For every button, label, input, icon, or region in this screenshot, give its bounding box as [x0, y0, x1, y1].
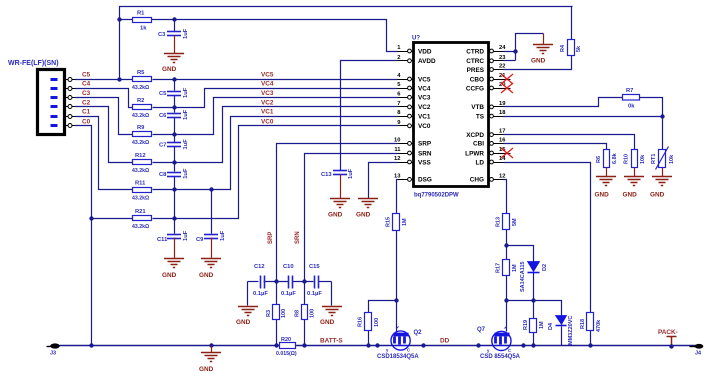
wire pin16 to R6 — [504, 144, 607, 150]
svg-text:C4: C4 — [82, 81, 91, 88]
svg-text:VDD: VDD — [418, 48, 432, 55]
wire VSS to ground — [369, 163, 398, 199]
wire right filter cap to ground — [331, 282, 333, 306]
SECTION: top rails — [120, 7, 573, 80]
wire pin5 jog to R11 — [76, 117, 134, 190]
svg-text:C9: C9 — [196, 237, 204, 243]
IC left pin stubs — [398, 49, 414, 181]
svg-text:AVDD: AVDD — [418, 58, 436, 65]
junction R1 row left — [117, 17, 121, 21]
resistor R13 — [496, 214, 519, 230]
svg-text:SRP: SRP — [268, 232, 274, 244]
wire R4 to top rail — [572, 7, 573, 40]
junction C3 top — [172, 17, 176, 21]
wire pin2 jog to R2 — [76, 89, 134, 108]
transistor Q2 CSD18534Q5A — [377, 327, 422, 361]
svg-text:470k: 470k — [596, 319, 602, 332]
svg-text:C0: C0 — [82, 118, 91, 125]
wire node to D2 — [507, 246, 534, 262]
resistor R6 — [596, 150, 618, 177]
svg-text:43.2kΩ: 43.2kΩ — [132, 168, 149, 174]
junction VC4 cap — [172, 105, 176, 109]
resistor R19 — [523, 319, 545, 333]
wire VC0 riser — [153, 126, 398, 219]
IC right pin stubs — [489, 49, 504, 181]
svg-text:18: 18 — [499, 110, 506, 116]
svg-text:VTB: VTB — [471, 104, 484, 111]
wire cap chain column — [174, 80, 176, 91]
ground below C9 — [199, 259, 221, 280]
svg-text:C6: C6 — [159, 113, 167, 119]
capacitor C12 — [253, 264, 268, 297]
svg-text:43.2kΩ: 43.2kΩ — [132, 113, 149, 119]
svg-text:12: 12 — [394, 156, 400, 162]
svg-text:VC5: VC5 — [418, 76, 431, 83]
svg-text:10k: 10k — [640, 154, 646, 164]
node PACK- — [658, 329, 678, 347]
junction rail R16 — [366, 343, 370, 347]
resistor R17 — [496, 260, 519, 276]
op-amp U? bq7790502DPW body — [412, 36, 489, 199]
capacitor C7 — [159, 139, 189, 150]
svg-text:Q2: Q2 — [414, 330, 423, 336]
svg-text:GND: GND — [162, 66, 177, 73]
svg-text:16: 16 — [499, 137, 506, 143]
junction CTRD CTRC — [513, 49, 517, 53]
svg-text:R7: R7 — [626, 88, 633, 94]
svg-text:CSD18534Q5A: CSD18534Q5A — [377, 354, 419, 360]
wire R15 to Q2 gate — [396, 231, 398, 332]
wire R1 row to VDD pin — [120, 20, 398, 52]
svg-text:10: 10 — [394, 137, 400, 143]
wire VC3 riser — [153, 98, 398, 135]
resistor R7 — [623, 88, 640, 110]
svg-text:R21: R21 — [135, 209, 146, 215]
svg-text:C: C — [508, 348, 511, 353]
svg-text:R2: R2 — [137, 98, 144, 104]
svg-text:1uF: 1uF — [348, 168, 354, 179]
shunt resistor R20 0.015 ohm — [276, 337, 297, 357]
SECTION: CHG gate drive chain — [504, 180, 591, 346]
capacitor C3 — [158, 20, 189, 54]
svg-text:43.2kΩ: 43.2kΩ — [132, 140, 149, 146]
svg-text:1M: 1M — [402, 218, 408, 226]
svg-text:SRN: SRN — [295, 231, 301, 244]
svg-text:R15: R15 — [386, 217, 392, 227]
ground below VSS — [356, 199, 378, 219]
svg-text:C: C — [407, 348, 410, 353]
svg-text:bq7790502DPW: bq7790502DPW — [414, 193, 459, 199]
svg-text:VC3: VC3 — [418, 95, 431, 102]
svg-text:0.015(Ω): 0.015(Ω) — [276, 351, 297, 357]
svg-text:DD: DD — [440, 338, 450, 345]
junction Q7 source — [476, 343, 480, 347]
ground below C13 — [328, 199, 350, 219]
junction VC5 cap — [172, 77, 176, 81]
SECTION: IC right side — [504, 7, 573, 70]
svg-text:C13: C13 — [321, 172, 332, 178]
svg-text:CBO: CBO — [470, 76, 484, 83]
svg-text:R9: R9 — [137, 125, 145, 131]
svg-text:24: 24 — [499, 45, 506, 51]
junction Q2 gate node — [394, 298, 398, 302]
ground left of filter — [236, 307, 258, 327]
wire left filter cap to ground — [247, 282, 249, 306]
junction rail SRP — [274, 343, 278, 347]
transistor Q7 CSD 8554Q5A — [477, 327, 521, 361]
ground below C3 — [162, 54, 184, 74]
svg-text:1uF: 1uF — [220, 230, 226, 241]
svg-text:WR-FE(LF)(SN): WR-FE(LF)(SN) — [8, 60, 59, 67]
resistor R11 — [132, 181, 152, 202]
svg-text:CHG: CHG — [470, 177, 484, 184]
svg-text:R3: R3 — [266, 310, 272, 317]
junction TS node — [660, 114, 664, 118]
svg-text:VSS: VSS — [418, 159, 432, 166]
svg-text:GND: GND — [531, 58, 546, 65]
svg-text:CSD 8554Q5A: CSD 8554Q5A — [480, 354, 521, 360]
svg-text:1uF: 1uF — [183, 28, 189, 39]
zener diode D2 SA14CA115 — [520, 261, 548, 292]
ground at CTRD/CTRC — [531, 34, 553, 65]
svg-text:C15: C15 — [309, 264, 320, 270]
connector J1 WR-FE(LF)(SN) — [8, 60, 65, 135]
svg-text:C8: C8 — [159, 172, 167, 178]
svg-text:10k: 10k — [669, 154, 675, 164]
wire SRP resistor to shunt — [276, 282, 278, 305]
resistor R16 — [358, 313, 381, 331]
wire CTRD CTRC tie — [504, 34, 544, 52]
wire VC5 — [153, 79, 398, 81]
svg-text:22: 22 — [499, 64, 505, 70]
junction rail R19 — [531, 343, 535, 347]
wire CHG down — [504, 180, 507, 214]
wire C0 tap to R21 — [92, 218, 134, 220]
svg-text:43.2kΩ: 43.2kΩ — [132, 85, 149, 91]
svg-text:R12: R12 — [135, 153, 146, 159]
IC pin numbers left — [394, 45, 401, 179]
resistor R8 sense filter — [295, 305, 316, 320]
SECTION: cell-tap wires from connector — [76, 80, 134, 346]
junction rail R18 — [588, 343, 592, 347]
svg-text:VC4: VC4 — [261, 81, 274, 88]
capacitor C10 — [281, 264, 296, 297]
svg-text:23: 23 — [499, 55, 506, 61]
svg-text:C3: C3 — [82, 90, 91, 97]
svg-text:J4: J4 — [695, 351, 702, 357]
IC pin names right — [465, 48, 485, 183]
resistor R21 — [132, 209, 152, 230]
SECTION: ladder capacitor chain — [174, 80, 176, 219]
svg-text:1uF: 1uF — [183, 168, 189, 179]
svg-text:R16: R16 — [358, 317, 364, 327]
wire R16 branch — [369, 301, 397, 313]
wire VC1 riser — [153, 117, 398, 190]
wire DSG down — [397, 180, 398, 214]
wire filter bus — [248, 281, 259, 283]
AVDD decoupling wire — [341, 61, 398, 171]
svg-text:R13: R13 — [496, 217, 502, 227]
svg-text:R6: R6 — [596, 156, 602, 163]
svg-text:VC4: VC4 — [418, 85, 431, 92]
capacitor C5 — [159, 87, 189, 98]
svg-text:5M: 5M — [512, 218, 518, 226]
wire TS node to thermistor — [662, 117, 664, 150]
wire battery minus rail — [60, 345, 696, 347]
svg-text:C3: C3 — [158, 32, 166, 38]
svg-text:1M: 1M — [512, 264, 518, 272]
svg-text:SRN: SRN — [418, 150, 432, 157]
ground on rail — [199, 343, 221, 373]
ground right of filter — [320, 307, 342, 327]
junction VC1 cap — [172, 187, 176, 191]
junction rail PACK- — [669, 344, 673, 348]
capacitor C15 — [307, 264, 322, 297]
svg-text:R18: R18 — [580, 319, 586, 329]
wire SRN from pin 11 — [305, 154, 398, 282]
svg-text:R10: R10 — [624, 154, 630, 164]
svg-text:1uF: 1uF — [183, 230, 189, 241]
svg-text:GND: GND — [650, 192, 665, 199]
junction R13 D2 — [504, 243, 508, 247]
svg-text:5k: 5k — [576, 45, 582, 52]
svg-text:LD: LD — [475, 159, 484, 166]
svg-text:0.1µF: 0.1µF — [281, 291, 296, 297]
svg-text:VC1: VC1 — [261, 109, 274, 116]
wire pin1 to R5 — [76, 79, 134, 81]
wire R13 to node — [506, 230, 508, 260]
resistor R10 — [624, 150, 647, 177]
resistor R4 — [560, 40, 582, 56]
svg-text:6.8k: 6.8k — [612, 152, 618, 164]
no-connect X on pin 20 — [498, 83, 514, 93]
wire R17 to Q7 gate — [506, 276, 508, 332]
resistor R2 — [132, 98, 152, 119]
junction rail C0 — [89, 343, 93, 347]
resistor R12 — [132, 153, 152, 174]
svg-text:GND: GND — [623, 192, 638, 199]
svg-text:VC0: VC0 — [261, 118, 274, 125]
terminal J4 — [690, 344, 704, 357]
svg-text:C10: C10 — [283, 264, 294, 270]
wire TS — [504, 116, 663, 118]
resistor R9 — [132, 125, 152, 146]
resistor R5 — [132, 70, 152, 91]
svg-text:XCPD: XCPD — [466, 132, 484, 139]
junction SRP filter — [274, 279, 278, 283]
svg-text:J3: J3 — [50, 351, 56, 357]
ground below R6 — [595, 177, 617, 199]
svg-text:C5: C5 — [82, 72, 91, 79]
svg-text:VC0: VC0 — [418, 123, 431, 130]
svg-text:VC2: VC2 — [261, 99, 274, 106]
svg-text:VC5: VC5 — [261, 72, 274, 79]
svg-text:C2: C2 — [82, 99, 91, 106]
svg-text:1k: 1k — [140, 26, 147, 32]
svg-text:VC1: VC1 — [418, 113, 431, 120]
resistor R15 — [386, 214, 409, 231]
svg-text:GND: GND — [328, 212, 343, 219]
wire R16 to rail — [368, 331, 370, 346]
IC pin names left — [418, 48, 436, 183]
SECTION: DSG gate drive — [369, 180, 398, 346]
svg-text:7: 7 — [397, 101, 400, 107]
svg-text:12: 12 — [499, 173, 505, 179]
svg-text:R17: R17 — [496, 263, 502, 273]
svg-text:U?: U? — [412, 36, 420, 42]
wire SRN resistor to shunt — [304, 282, 306, 305]
svg-text:0.1µF: 0.1µF — [253, 291, 268, 297]
wire pin3 jog to R9 — [76, 98, 134, 135]
svg-text:TS: TS — [476, 113, 485, 120]
junction D2 R19 — [531, 298, 535, 302]
zener diode D4 MM3Z20VC — [548, 316, 574, 346]
wire VTB to R7 — [504, 98, 623, 107]
capacitor C8 — [159, 168, 189, 179]
svg-text:1uF: 1uF — [183, 139, 189, 150]
svg-text:100: 100 — [310, 309, 316, 318]
junction rail SRN — [302, 343, 306, 347]
wire node B bus — [507, 301, 562, 316]
svg-text:CTRD: CTRD — [466, 48, 484, 55]
ground below R10 — [623, 177, 645, 199]
junction SRN filter — [302, 279, 306, 283]
junction C0 tap — [89, 216, 93, 220]
SECTION: SRP / SRN sense filter — [248, 144, 398, 346]
svg-text:0k: 0k — [628, 104, 635, 110]
wire LD run — [504, 163, 591, 313]
svg-text:R8: R8 — [295, 310, 301, 317]
wire VC2 riser — [153, 107, 398, 163]
svg-text:13: 13 — [394, 173, 401, 179]
svg-text:VC2: VC2 — [418, 104, 431, 111]
svg-text:17: 17 — [499, 129, 505, 135]
svg-text:2: 2 — [397, 55, 400, 61]
SECTION: VTB / TS thermistor network — [504, 98, 663, 313]
svg-text:100: 100 — [281, 309, 287, 318]
wire pin6 down to battery minus rail — [76, 126, 92, 346]
svg-text:R19: R19 — [523, 320, 529, 330]
svg-text:0.1µF: 0.1µF — [307, 291, 322, 297]
wire R19 to rail — [533, 301, 535, 319]
svg-text:1M: 1M — [539, 321, 545, 329]
wire D2 to node B — [533, 273, 535, 301]
svg-text:DSG: DSG — [418, 177, 432, 184]
svg-text:C12: C12 — [254, 264, 265, 270]
terminal J3 — [47, 343, 60, 356]
svg-text:GND: GND — [320, 319, 335, 326]
junction Q7 drain — [521, 343, 525, 347]
svg-text:R1: R1 — [137, 11, 145, 17]
wire D4 to rail — [561, 327, 563, 346]
svg-text:43.2kΩ: 43.2kΩ — [132, 196, 149, 202]
svg-text:100: 100 — [374, 318, 380, 327]
svg-text:GND: GND — [199, 366, 214, 373]
svg-text:VC3: VC3 — [261, 90, 274, 97]
SECTION: VC wires to IC with nested risers — [153, 80, 398, 219]
junction VC1 bypass — [209, 187, 213, 191]
capacitor C6 — [159, 109, 189, 120]
svg-text:43.2kΩ: 43.2kΩ — [132, 224, 149, 230]
svg-text:C7: C7 — [159, 143, 166, 149]
svg-text:R20: R20 — [281, 337, 291, 343]
svg-text:C11: C11 — [157, 237, 168, 243]
no-connect X on pin 21 — [498, 74, 514, 84]
junction VC0 cap — [172, 216, 176, 220]
svg-text:R11: R11 — [135, 181, 146, 187]
svg-text:D4: D4 — [548, 322, 554, 330]
junction VDD feed — [117, 77, 121, 81]
capacitor C11 to ground — [157, 219, 189, 259]
junction VC3 cap — [172, 132, 176, 136]
svg-text:CTRC: CTRC — [466, 58, 484, 65]
svg-text:Q7: Q7 — [477, 327, 486, 333]
svg-text:1uF: 1uF — [183, 109, 189, 120]
svg-text:R5: R5 — [137, 70, 145, 76]
IC pin numbers right — [499, 45, 506, 179]
svg-text:GND: GND — [356, 212, 371, 219]
svg-text:GND: GND — [236, 319, 251, 326]
wire SRP from pin 10 — [277, 144, 398, 282]
ground below C11 — [162, 259, 184, 280]
wire PRES to R4 — [504, 56, 572, 70]
svg-text:SA14CA115: SA14CA115 — [520, 261, 526, 292]
svg-text:D2: D2 — [542, 264, 548, 271]
wire VC4 riser — [153, 89, 398, 108]
svg-text:RT1: RT1 — [651, 154, 657, 164]
svg-text:MM3Z20VC: MM3Z20VC — [568, 316, 574, 345]
svg-text:R4: R4 — [560, 44, 566, 52]
SECTION: junction dots — [89, 17, 673, 348]
svg-text:GND: GND — [162, 272, 177, 279]
svg-text:SRP: SRP — [418, 141, 432, 148]
svg-text:PACK-: PACK- — [658, 329, 678, 336]
capacitor C13 — [321, 168, 354, 198]
ground below RT1 — [650, 177, 672, 199]
junction VC2 cap — [172, 160, 176, 164]
svg-text:BATT-S: BATT-S — [320, 338, 343, 345]
svg-text:CCFG: CCFG — [466, 85, 484, 92]
resistor R1 — [133, 11, 152, 32]
wire pin4 jog to R12 — [76, 107, 134, 163]
wire top rail VDD feed — [120, 7, 573, 80]
svg-text:C5: C5 — [159, 91, 167, 97]
svg-text:GND: GND — [199, 272, 214, 279]
junction Q2 drain — [421, 343, 425, 347]
svg-text:PRES: PRES — [467, 67, 485, 74]
svg-text:1uF: 1uF — [183, 87, 189, 98]
wire R18 to rail — [590, 331, 592, 346]
svg-text:C1: C1 — [82, 109, 91, 116]
junction Q7 gate node — [504, 298, 508, 302]
svg-text:CBI: CBI — [473, 141, 484, 148]
resistor R3 sense filter — [266, 305, 287, 320]
connector pins (6 stubs) — [65, 78, 76, 128]
thermistor RT1 — [651, 147, 675, 177]
no-connect X on pin 15 — [498, 148, 514, 158]
wire pin17 to R10 — [504, 135, 635, 150]
resistor R18 — [580, 313, 602, 333]
svg-text:LPWR: LPWR — [465, 150, 484, 157]
capacitor C9 to ground — [196, 190, 226, 259]
junction Q2 source — [375, 343, 379, 347]
svg-text:11: 11 — [394, 147, 401, 153]
wire R7 to TS node — [640, 98, 663, 117]
svg-text:GND: GND — [595, 192, 610, 199]
